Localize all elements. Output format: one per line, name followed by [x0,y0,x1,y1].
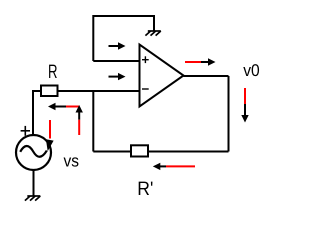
black arrow: current into + input [109,42,126,49]
wire: + input of op-amp [93,60,138,62]
sine wave inside source [20,146,47,157]
red arrow: feedback current (left, below R') [153,163,195,170]
wire: bottom feedback right segment [149,151,229,153]
svg-text:vs: vs [64,152,80,171]
black arrow: current into - input [109,73,126,80]
wire: feedback vertical from - node down [92,91,94,152]
wire: non-inverting input loop to ground (top box) [93,16,154,61]
black/red arrow: current up from source [76,105,83,135]
svg-text:R: R [48,61,58,83]
op-amp + pin mark [142,56,149,63]
op-amp - pin mark [142,88,149,90]
wire: op-amp output [184,75,229,77]
ground (top, at op-amp + network) [145,31,160,36]
wire: source bottom to ground [33,170,35,196]
red arrow: output current down (v0) [241,88,248,123]
svg-text:v0: v0 [243,61,260,80]
wire: from source top through node to resistor R (inverting branch) [33,91,41,135]
wire: right vertical from output down to feedback [228,76,230,152]
red arrow: current down into source [46,120,54,151]
red arrow: input current (left, above source) [48,103,79,110]
wire: resistor R to - input [59,90,139,92]
voltage source vs (circle) [16,135,51,170]
red arrow: output current (right) [185,58,216,65]
op-amp U1 [140,45,184,107]
+ polarity mark of source [21,126,30,136]
ground (bottom, under source) [25,196,40,201]
wire: bottom feedback left segment [93,151,130,153]
resistor R' [131,145,148,156]
svg-text:R': R' [137,178,153,200]
resistor R [41,86,58,97]
